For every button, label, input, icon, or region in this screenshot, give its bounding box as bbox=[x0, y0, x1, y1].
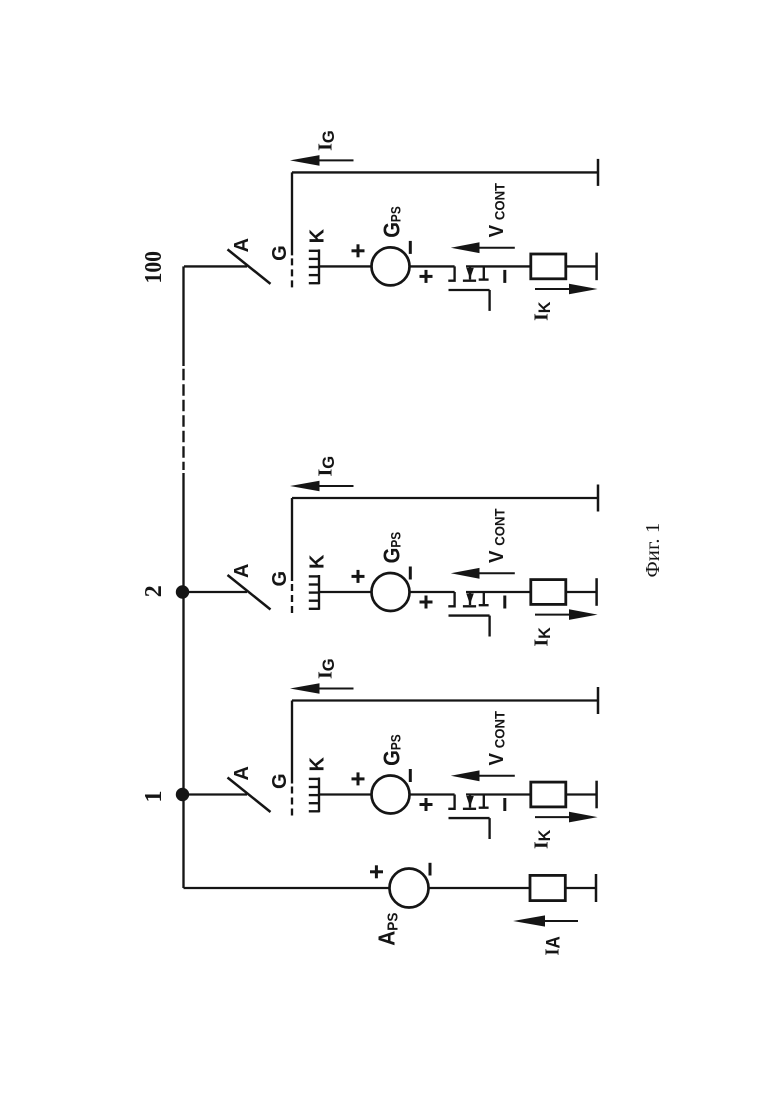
cell 1: grid electrode G (dashed) bbox=[291, 787, 293, 817]
cell 1: wire cathode to pulse source GPS bbox=[320, 793, 372, 795]
cell 2: transistor source contact leg bbox=[448, 592, 454, 606]
cell 1: transistor body arrow leg bbox=[469, 795, 471, 808]
cell 2: minus sign at GPS negative terminal bbox=[409, 567, 412, 580]
cell 2: switch A blade bbox=[228, 575, 271, 610]
cell 1: transistor drain top wire to sensor box bbox=[466, 793, 531, 795]
cell 100: IK current arrow bbox=[535, 288, 586, 290]
svg-text:V CONT: V CONT bbox=[486, 182, 508, 237]
svg-text:2: 2 bbox=[141, 585, 167, 597]
cell 2: VCONT control voltage arrow bbox=[462, 572, 515, 574]
anode bus: solid upper segment bbox=[182, 266, 184, 366]
cell 100: cathode terminal bar bbox=[595, 253, 598, 281]
cell 2: plus sign at transistor source side bbox=[420, 596, 433, 609]
svg-text:K: K bbox=[307, 228, 329, 243]
cell 100: IG measurement loop wire bbox=[292, 171, 598, 173]
svg-text:IG: IG bbox=[315, 658, 339, 679]
cell 2: IG measurement loop wire bbox=[292, 497, 598, 499]
cell 2: wire from anode bus to switch bbox=[184, 591, 247, 593]
cell 2: pulse source GPS circle bbox=[372, 573, 410, 611]
cell 100: IG current arrow bbox=[302, 159, 354, 161]
cell 100: minus sign at GPS negative terminal bbox=[409, 241, 412, 254]
svg-text:GPS: GPS bbox=[378, 206, 404, 238]
cell 100: transistor gate bar bbox=[449, 289, 490, 291]
cell 1: VCONT control voltage arrow bbox=[462, 775, 515, 777]
cell 100: pulse source GPS circle bbox=[372, 247, 410, 285]
cell 100: transistor body arrow leg bbox=[469, 266, 471, 279]
cell 100: plus sign at transistor source side bbox=[420, 270, 433, 283]
anode bus: solid lower segment bbox=[182, 473, 184, 888]
cell 100: grid lead wire from IG loop down to grid bbox=[291, 172, 293, 255]
cell 1: wire GPS to transistor source bbox=[410, 793, 455, 795]
svg-text:A: A bbox=[231, 766, 253, 780]
cell 100: VCONT control voltage arrow bbox=[462, 247, 515, 249]
cell 1: minus sign at transistor drain side bbox=[503, 798, 506, 811]
svg-text:IK: IK bbox=[531, 830, 555, 849]
cell 100: cathode comb spine bbox=[318, 249, 320, 284]
cell 1: transistor gate lead bbox=[488, 818, 490, 839]
cell 100: cathode comb teeth bbox=[309, 251, 320, 283]
cell 1: cathode comb teeth bbox=[309, 779, 320, 811]
cell 1: cathode terminal bar bbox=[595, 781, 598, 809]
svg-text:IK: IK bbox=[531, 302, 555, 321]
cell 100: wire GPS to transistor source bbox=[410, 265, 455, 267]
cell 1: transistor source contact leg bbox=[448, 795, 454, 809]
cell 2: IK current arrow bbox=[535, 614, 586, 616]
cell 2: transistor drain contact leg bbox=[483, 592, 485, 605]
svg-text:100: 100 bbox=[141, 251, 167, 284]
cell 1: switch A blade bbox=[228, 778, 271, 813]
cell 100: transistor source contact leg bbox=[448, 266, 454, 280]
svg-text:G: G bbox=[269, 773, 291, 789]
anode bus: dashed segment (omitted cells 3..99) bbox=[182, 369, 184, 470]
svg-text:1: 1 bbox=[141, 791, 167, 803]
cell 2: cathode terminal bar bbox=[595, 578, 598, 606]
cell 2: plus sign at GPS positive terminal bbox=[352, 570, 365, 583]
cell 2: wire sensor box to terminal bbox=[566, 591, 597, 593]
cell 100: transistor gate lead bbox=[488, 290, 490, 311]
cell 100: IG loop terminal bar bbox=[597, 159, 600, 186]
minus sign at APS negative terminal bbox=[429, 863, 432, 876]
svg-text:A: A bbox=[231, 238, 253, 252]
svg-text:K: K bbox=[307, 554, 329, 569]
cell 1: IG measurement loop wire bbox=[292, 699, 598, 701]
cell 1: cathode comb spine bbox=[318, 778, 320, 813]
svg-text:APS: APS bbox=[374, 913, 402, 946]
cell 100: transistor drain top wire to sensor box bbox=[466, 265, 531, 267]
anode power source APS circle bbox=[390, 869, 429, 908]
cell 1: wire sensor box to terminal bbox=[566, 793, 597, 795]
cell 2: transistor gate bar bbox=[449, 614, 490, 616]
svg-text:GPS: GPS bbox=[378, 734, 404, 766]
cell 2: transistor drain top wire to sensor box bbox=[466, 591, 531, 593]
plus sign at APS positive terminal bbox=[370, 865, 383, 878]
svg-text:G: G bbox=[269, 571, 291, 587]
cell 1: wire from anode bus to switch bbox=[184, 793, 247, 795]
svg-text:Фиг. 1: Фиг. 1 bbox=[642, 523, 664, 578]
cell 2: transistor body arrow leg bbox=[469, 592, 471, 605]
svg-text:IG: IG bbox=[315, 456, 339, 477]
anode terminal bar bbox=[595, 874, 598, 902]
svg-text:IA: IA bbox=[542, 936, 565, 956]
cell 100: wire cathode to pulse source GPS bbox=[320, 265, 372, 267]
svg-text:IG: IG bbox=[315, 130, 339, 151]
cell 1: IG loop terminal bar bbox=[597, 687, 600, 714]
cell 2: grid lead wire from IG loop down to grid bbox=[291, 498, 293, 581]
node: bus junction dot for cell 1 bbox=[176, 788, 189, 801]
cell 1: plus sign at GPS positive terminal bbox=[352, 772, 365, 785]
svg-text:IK: IK bbox=[531, 627, 555, 646]
cell 1: IG current arrow bbox=[302, 688, 354, 690]
svg-text:GPS: GPS bbox=[378, 532, 404, 564]
cell 1: IK current arrow bbox=[535, 816, 586, 818]
cell 1: plus sign at transistor source side bbox=[420, 798, 433, 811]
cell 100: wire from anode bus to switch bbox=[184, 265, 247, 267]
cell 2: IG current arrow bbox=[302, 485, 354, 487]
cell 2: transistor gate lead bbox=[488, 616, 490, 637]
cell 100: cathode current sensor box bbox=[531, 254, 566, 279]
common branch: wire from bus corner to anode supply APS bbox=[184, 887, 390, 889]
cell 1: transistor drain contact leg bbox=[483, 795, 485, 808]
cell 100: minus sign at transistor drain side bbox=[503, 270, 506, 283]
cell 1: grid lead wire from IG loop down to grid bbox=[291, 701, 293, 784]
svg-text:V CONT: V CONT bbox=[486, 711, 508, 766]
node: bus junction dot for cell 2 bbox=[176, 585, 189, 598]
IA current arrow bbox=[524, 920, 578, 922]
cell 2: IG loop terminal bar bbox=[597, 485, 600, 512]
cell 1: minus sign at GPS negative terminal bbox=[409, 769, 412, 782]
cell 2: wire GPS to transistor source bbox=[410, 591, 455, 593]
cell 2: cathode comb teeth bbox=[309, 576, 320, 608]
cell 2: cathode current sensor box bbox=[531, 580, 566, 605]
cell 2: minus sign at transistor drain side bbox=[503, 596, 506, 609]
wire sensor box to anode terminal bbox=[565, 887, 596, 889]
cell 1: cathode current sensor box bbox=[531, 782, 566, 807]
svg-text:V CONT: V CONT bbox=[486, 508, 508, 563]
svg-text:A: A bbox=[231, 564, 253, 578]
cell 1: transistor gate bar bbox=[449, 817, 490, 819]
cell 100: grid electrode G (dashed) bbox=[291, 258, 293, 288]
cell 100: plus sign at GPS positive terminal bbox=[352, 244, 365, 257]
anode current sensor box bbox=[530, 875, 565, 900]
cell 2: cathode comb spine bbox=[318, 575, 320, 610]
cell 100: switch A blade bbox=[228, 249, 271, 284]
cell 2: wire cathode to pulse source GPS bbox=[320, 591, 372, 593]
wire APS to anode current sensor box bbox=[429, 887, 531, 889]
cell 100: transistor drain contact leg bbox=[483, 266, 485, 279]
svg-text:K: K bbox=[307, 757, 329, 772]
svg-text:G: G bbox=[269, 245, 291, 261]
cell 100: wire sensor box to terminal bbox=[566, 265, 597, 267]
cell 1: pulse source GPS circle bbox=[372, 776, 410, 814]
cell 2: grid electrode G (dashed) bbox=[291, 584, 293, 614]
